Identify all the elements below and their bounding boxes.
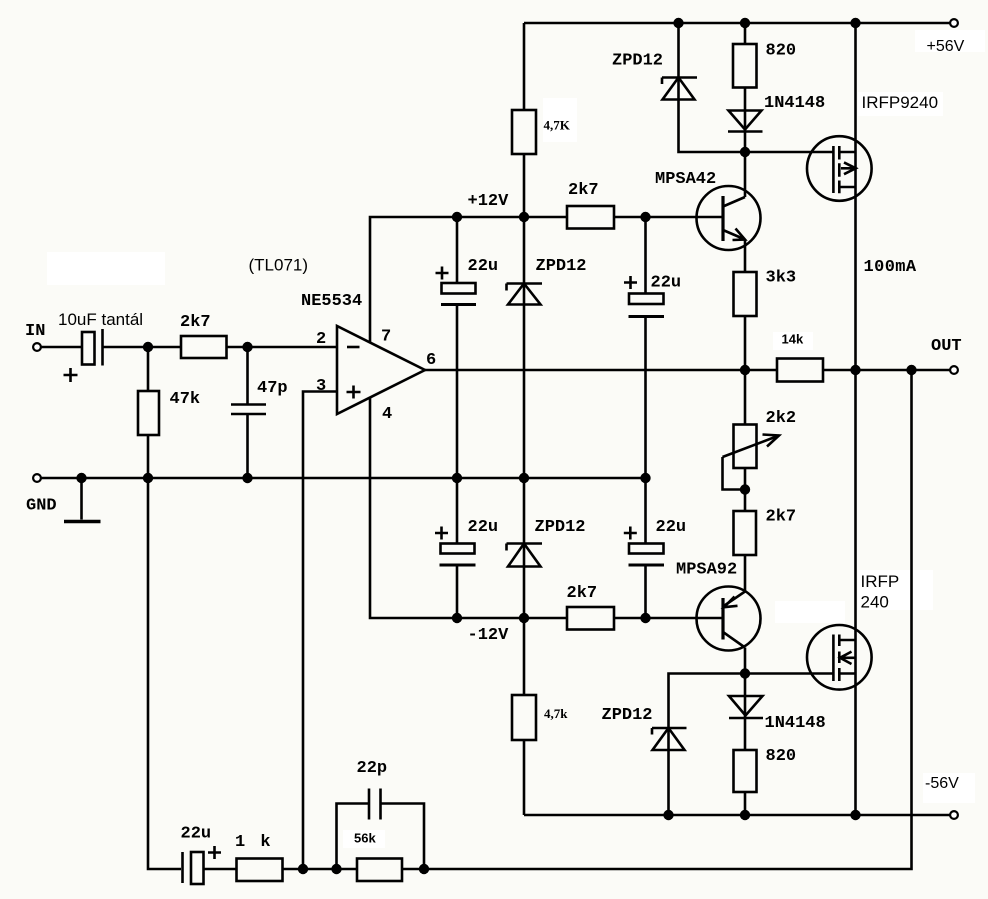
svg-text:NE5534: NE5534: [301, 292, 362, 311]
svg-text:3k3: 3k3: [766, 269, 797, 288]
svg-text:56k: 56k: [354, 831, 376, 846]
svg-text:22u: 22u: [656, 518, 687, 537]
svg-text:+56V: +56V: [927, 38, 965, 55]
svg-text:4,7K: 4,7K: [544, 118, 571, 133]
svg-text:+12V: +12V: [468, 192, 510, 211]
svg-text:22u: 22u: [468, 518, 499, 537]
svg-text:4: 4: [382, 405, 392, 424]
svg-text:ZPD12: ZPD12: [612, 52, 663, 71]
svg-text:2k7: 2k7: [180, 313, 211, 332]
svg-text:2: 2: [316, 330, 326, 349]
svg-text:2k7: 2k7: [567, 584, 598, 603]
svg-text:2k7: 2k7: [568, 181, 599, 200]
svg-text:ZPD12: ZPD12: [535, 518, 586, 537]
svg-text:1 k: 1 k: [235, 833, 273, 852]
svg-text:OUT: OUT: [931, 337, 962, 356]
svg-text:2k7: 2k7: [766, 508, 797, 527]
svg-text:22p: 22p: [357, 759, 388, 778]
svg-text:22u: 22u: [651, 274, 682, 293]
svg-text:6: 6: [426, 351, 436, 370]
svg-text:22u: 22u: [181, 825, 212, 844]
svg-text:240: 240: [861, 593, 889, 612]
svg-text:MPSA42: MPSA42: [655, 170, 716, 189]
svg-text:820: 820: [766, 42, 797, 61]
svg-text:1N4148: 1N4148: [765, 714, 826, 733]
svg-text:ZPD12: ZPD12: [602, 706, 653, 725]
svg-text:3: 3: [316, 377, 326, 396]
svg-text:820: 820: [766, 747, 797, 766]
svg-text:10uF tantál: 10uF tantál: [58, 310, 143, 329]
svg-text:GND: GND: [26, 497, 57, 516]
svg-text:1N4148: 1N4148: [764, 94, 825, 113]
svg-text:-12V: -12V: [468, 626, 510, 645]
svg-text:100mA: 100mA: [864, 258, 917, 277]
svg-text:ZPD12: ZPD12: [536, 257, 587, 276]
svg-text:47k: 47k: [170, 390, 201, 409]
svg-text:IN: IN: [25, 322, 45, 341]
svg-text:7: 7: [381, 328, 391, 347]
svg-text:(TL071): (TL071): [249, 256, 309, 275]
svg-text:14k: 14k: [782, 332, 804, 347]
svg-text:4,7k: 4,7k: [544, 706, 568, 721]
svg-text:MPSA92: MPSA92: [676, 561, 737, 580]
svg-text:2k2: 2k2: [766, 409, 797, 428]
svg-text:IRFP9240: IRFP9240: [862, 93, 939, 112]
svg-text:22u: 22u: [468, 257, 499, 276]
svg-text:47p: 47p: [257, 379, 288, 398]
svg-text:IRFP: IRFP: [861, 572, 900, 591]
svg-text:-56V: -56V: [925, 775, 959, 792]
